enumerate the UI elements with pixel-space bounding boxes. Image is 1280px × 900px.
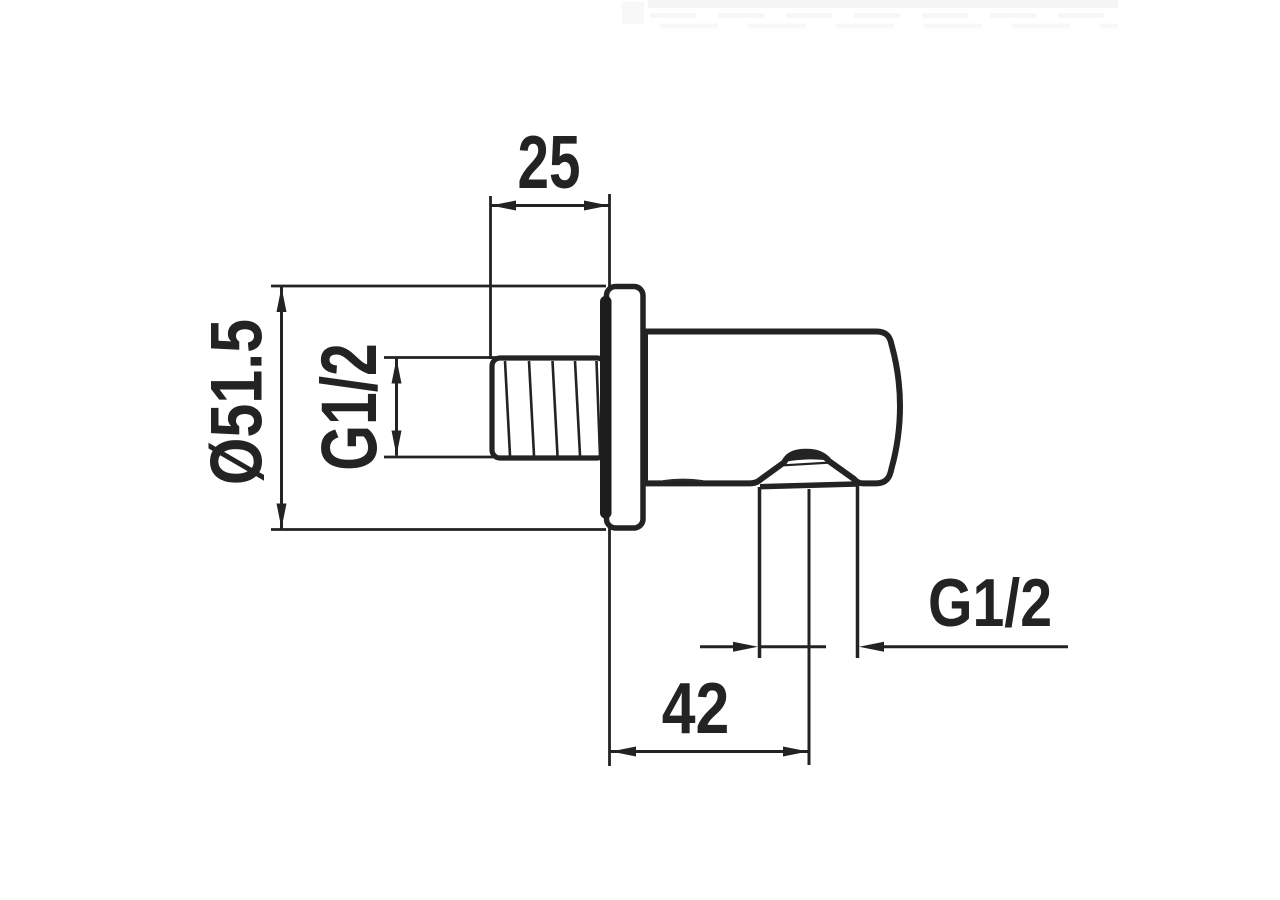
- dia51.5-dim bottom extension line: [271, 528, 606, 531]
- outlet face bar: [760, 484, 856, 487]
- watermark faint dash row 2: [650, 13, 1118, 18]
- thread hatch line 1: [505, 361, 510, 456]
- 42-dim right arrowhead: [783, 747, 808, 757]
- thread hatch line 5: [597, 361, 601, 456]
- thread hatch line 4: [575, 361, 580, 456]
- body bottom seam bump: [663, 480, 703, 482]
- 25-dim right arrowhead: [584, 201, 609, 211]
- dia51.5-dim top arrowhead: [277, 287, 287, 312]
- dia51.5-dim top extension line: [271, 285, 606, 288]
- outlet pipe right outer line: [856, 484, 860, 658]
- watermark faint corner mark: [622, 2, 644, 24]
- 42-dim left arrowhead: [611, 747, 636, 757]
- G1/2-left bottom extension line: [384, 456, 500, 459]
- svg-text:42: 42: [662, 669, 730, 749]
- G1/2-bottom mid segment: [760, 645, 827, 648]
- svg-text:G1/2: G1/2: [305, 343, 393, 471]
- 25-dim dimension line: [491, 204, 610, 207]
- thread hatch line 3: [553, 361, 558, 456]
- elbow body outline: [645, 332, 900, 484]
- dia51.5-dim bottom arrowhead: [277, 504, 287, 529]
- G1/2-bottom dimension line right segment: [884, 645, 1068, 648]
- 25-dim left arrowhead: [491, 201, 516, 211]
- escutcheon wall plate: [607, 287, 644, 529]
- 25-dim left extension line: [489, 196, 492, 359]
- G1/2-left dimension line: [395, 359, 398, 456]
- dia51.5-dim dimension line: [280, 287, 283, 529]
- threaded nipple body: [492, 358, 605, 458]
- G1/2-bottom dimension line left segment: [700, 645, 734, 648]
- G1/2-left bottom arrowhead: [392, 431, 402, 456]
- svg-text:G1/2: G1/2: [928, 566, 1052, 642]
- G1/2-bottom right arrowhead: [859, 642, 884, 652]
- svg-text:Ø51.5: Ø51.5: [196, 319, 277, 485]
- svg-text:25: 25: [518, 121, 581, 205]
- G1/2-left top arrowhead: [392, 359, 402, 384]
- holder cone shading crescent: [782, 453, 831, 463]
- wall face extension line (right ext of 25-dim / left ext of 42-dim): [608, 194, 611, 766]
- watermark faint dash row 3: [660, 24, 1118, 29]
- outlet pipe center line: [808, 489, 811, 765]
- G1/2-left top extension line: [384, 356, 500, 359]
- thread hatch line 2: [529, 361, 534, 456]
- outlet pipe left outer line: [758, 487, 762, 658]
- 42-dim dimension line: [611, 750, 809, 753]
- G1/2-bottom left arrowhead: [733, 642, 758, 652]
- escutcheon dark edge band: [600, 296, 612, 519]
- holder cone inner edge line: [784, 463, 829, 466]
- watermark faint band row 1: [648, 0, 1118, 8]
